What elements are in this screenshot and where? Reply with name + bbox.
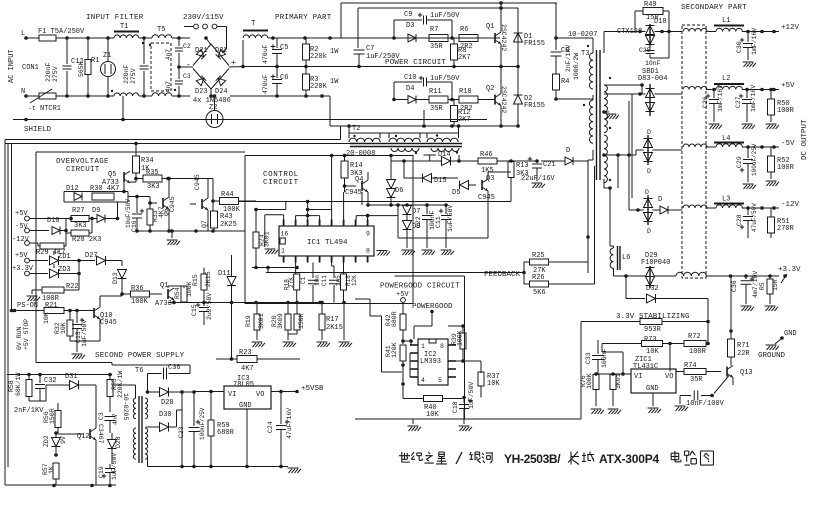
wire t6 top (7, 374, 112, 376)
svg-text:120K: 120K (391, 342, 398, 358)
bridge rectifier D24 (216, 76, 226, 86)
wire D9 up (117, 202, 119, 219)
wire ic3 out (271, 391, 297, 393)
svg-text:C36: C36 (731, 280, 738, 292)
capacitor C26 (713, 90, 715, 99)
svg-text:D: D (645, 189, 649, 196)
svg-text:953R: 953R (644, 326, 662, 334)
capacitor C6 (276, 67, 278, 79)
svg-text:A733: A733 (155, 300, 172, 308)
resistor R3 (305, 67, 307, 75)
svg-text:R30 4K7: R30 4K7 (90, 185, 119, 193)
wire ovp row (122, 293, 131, 295)
svg-text:1: 1 (421, 343, 425, 350)
wire N rail dots (65, 94, 69, 98)
svg-text:L: L (21, 30, 25, 38)
wire shield (13, 119, 487, 121)
svg-text:+5V: +5V (781, 82, 795, 90)
svg-text:Q3: Q3 (486, 175, 494, 183)
svg-text:R17: R17 (326, 316, 339, 324)
title char zhi (425, 452, 434, 463)
wire Q7 R44 (212, 179, 214, 212)
svg-text:D28: D28 (161, 399, 174, 407)
svg-text:D32: D32 (646, 285, 659, 293)
svg-text:D31: D31 (65, 373, 78, 381)
wire 12V row (667, 30, 671, 34)
svg-text:CONTROL: CONTROL (263, 171, 299, 179)
capacitor C12 (66, 38, 68, 64)
wire vi (596, 373, 631, 375)
svg-text:R5: R5 (759, 282, 766, 290)
wire pin5 vertical (331, 156, 333, 210)
resistor R51 (770, 208, 772, 217)
svg-text:100K: 100K (586, 373, 593, 389)
wire t3 sec bottom (603, 179, 605, 188)
wire ps-on (10, 309, 14, 313)
svg-text:D11: D11 (218, 270, 231, 278)
grounds ic1 (377, 250, 388, 252)
resistor R57 (53, 463, 59, 479)
wire top rail (268, 37, 500, 39)
svg-text:GROUND: GROUND (758, 352, 786, 360)
capacitor C15 (203, 303, 205, 307)
title char shi (399, 452, 410, 462)
svg-text:2u2/50V: 2u2/50V (206, 293, 213, 320)
ic1 top pins (283, 220, 285, 227)
svg-text:275V: 275V (130, 68, 137, 84)
svg-text:ZD3: ZD3 (58, 266, 71, 274)
resistor R19 (256, 303, 258, 315)
resistor R46 (478, 158, 497, 164)
diode D -12V (660, 206, 668, 214)
svg-text:D: D (647, 228, 651, 235)
transformer T6 primary (133, 398, 136, 419)
svg-text:2K7: 2K7 (458, 116, 471, 124)
svg-text:2K15: 2K15 (205, 271, 212, 287)
svg-text:SHIELD: SHIELD (24, 126, 52, 134)
resistor R43 (211, 211, 218, 228)
transformer T6 core (138, 396, 140, 463)
diode D5 (460, 181, 469, 190)
diode D2 (517, 67, 519, 96)
wire 3v3 row (706, 275, 779, 277)
svg-text:D14: D14 (438, 151, 451, 159)
resistor R2 (305, 38, 307, 44)
svg-text:C1: C1 (300, 276, 307, 284)
svg-text:PRIMARY PART: PRIMARY PART (275, 14, 332, 22)
ground C21 (532, 182, 543, 184)
svg-text:C9: C9 (404, 11, 412, 19)
svg-text:GND: GND (646, 385, 659, 393)
svg-text:4n7: 4n7 (165, 49, 172, 60)
bridge rectifier D22 (216, 49, 226, 59)
svg-text:1mF/16V: 1mF/16V (751, 28, 758, 55)
svg-text:D: D (647, 168, 651, 175)
svg-text:+5V: +5V (15, 252, 28, 260)
svg-text:C11: C11 (435, 216, 442, 228)
svg-text:N: N (21, 88, 25, 96)
svg-text:2K25: 2K25 (220, 221, 237, 229)
diode D28c (108, 440, 117, 449)
resistor R71 (729, 329, 733, 333)
svg-text:8: 8 (366, 248, 370, 255)
svg-text:2nF/1KV: 2nF/1KV (565, 45, 572, 72)
svg-text:Z1: Z1 (103, 52, 111, 60)
diode D8 (403, 221, 412, 230)
resistor R40 (403, 398, 423, 400)
diode D1 (517, 8, 519, 33)
transformer T2 primary coils (349, 138, 380, 142)
diode D13 (118, 270, 127, 279)
svg-text:AC INPUT: AC INPUT (8, 49, 16, 83)
resistor R21 (44, 308, 64, 314)
wire powergood left (355, 298, 370, 300)
wire q4 emitter (361, 192, 363, 205)
resistor R33 (147, 209, 153, 225)
svg-text:C945: C945 (478, 194, 495, 202)
svg-text:FR155: FR155 (524, 102, 545, 110)
resistor R12 (453, 100, 455, 107)
svg-text:C19: C19 (98, 466, 105, 478)
svg-text:1K: 1K (48, 466, 55, 474)
transformer T2 secondary coils (391, 148, 419, 152)
svg-text:R27: R27 (72, 207, 85, 215)
resistor R76 (593, 375, 599, 390)
ground C30 (743, 61, 754, 63)
capacitor C28 (747, 208, 749, 215)
wire bus left1 (4, 140, 6, 486)
svg-text:R25: R25 (532, 252, 545, 260)
resistor R32 (69, 311, 71, 321)
wire bridge to rails (206, 38, 211, 45)
svg-text:+3.3V: +3.3V (12, 265, 34, 273)
wire row302 (318, 301, 322, 305)
svg-text:ATX-300P4: ATX-300P4 (599, 452, 660, 466)
svg-text:+3.3V: +3.3V (778, 266, 801, 274)
svg-text:C33: C33 (585, 352, 592, 364)
wire bottom rail (230, 95, 330, 97)
coil 3v3 dashed (676, 272, 706, 276)
diode D14 (442, 157, 451, 166)
capacitor C21 (511, 160, 537, 162)
resistor R14 (343, 154, 347, 158)
capacitor C30 (747, 32, 749, 43)
svg-text:R11: R11 (429, 88, 442, 96)
resistor R16 (343, 263, 345, 275)
svg-text:1W: 1W (330, 78, 339, 86)
svg-text:C6: C6 (280, 74, 288, 82)
resistor R4 (553, 74, 560, 90)
bridge rectifier D21 (196, 49, 206, 59)
transformer T3 phase dots (587, 45, 589, 47)
wire bottom drop (329, 96, 331, 126)
transistor Q2 (494, 95, 496, 105)
wire t3 sec verticals (617, 155, 619, 188)
capacitor C16 (136, 197, 138, 214)
svg-text:R15: R15 (192, 274, 199, 286)
svg-text:R34: R34 (141, 157, 154, 165)
svg-text:470uF: 470uF (262, 74, 269, 94)
zener ZD3 (50, 269, 59, 278)
diode D11 (231, 255, 233, 277)
capacitor C2 (177, 36, 181, 40)
wire ic3 in (194, 391, 224, 393)
svg-text:F10P040: F10P040 (641, 259, 670, 267)
resistor R18 (295, 263, 297, 275)
svg-text:2SC4242: 2SC4242 (500, 86, 507, 113)
box power circuit top (341, 2, 557, 4)
resistor R44 (220, 198, 239, 205)
resistor R20 (287, 303, 289, 315)
svg-text:220k: 220k (310, 53, 327, 61)
resistor R22 (42, 287, 64, 293)
title char dian (671, 451, 681, 462)
ic2 pins right (448, 344, 456, 346)
wire ic1 row B (296, 215, 320, 217)
ic2 pins left (410, 344, 418, 346)
svg-text:4: 4 (421, 377, 425, 384)
svg-text:L6: L6 (622, 254, 630, 262)
svg-text:R23: R23 (239, 349, 252, 357)
capacitor C32 (39, 375, 41, 384)
svg-text:R7: R7 (430, 26, 438, 34)
resistor R63 953R (581, 321, 640, 323)
wire r72 node (669, 344, 671, 372)
transformer T6 secondary (145, 398, 148, 419)
wire row205 (368, 204, 446, 206)
svg-text:D12: D12 (66, 185, 79, 193)
capacitor C11b (445, 205, 447, 214)
diode D6 (390, 156, 392, 181)
wire bus top1 (5, 139, 341, 141)
svg-text:150R: 150R (49, 408, 56, 424)
svg-text:+12V: +12V (781, 24, 800, 32)
resistor R7 (429, 35, 448, 42)
wire ic2 left col (409, 353, 411, 377)
resistor R6 (459, 35, 478, 42)
transistor Q12 (89, 429, 91, 439)
svg-text:Q5: Q5 (108, 171, 116, 179)
svg-text:C29: C29 (736, 156, 743, 168)
resistor R34 (134, 142, 138, 146)
svg-text:R4: R4 (561, 78, 569, 86)
transistor Q11 (167, 289, 169, 299)
coil +5V dashed (683, 87, 707, 90)
resistor R24 (253, 232, 259, 248)
resistor R10 (459, 96, 478, 103)
svg-text:D10: D10 (47, 217, 60, 225)
resistor R11 (429, 96, 448, 103)
svg-text:3K09: 3K09 (277, 313, 284, 329)
svg-text:DC OUTPUT: DC OUTPUT (801, 119, 809, 160)
diode D7 (403, 206, 412, 215)
svg-text:12K: 12K (351, 275, 358, 286)
svg-text:R19: R19 (245, 315, 252, 327)
resistor R58 (26, 380, 32, 397)
capacitor C3 (177, 94, 181, 98)
resistor R8 (453, 38, 455, 44)
svg-text:22R: 22R (737, 350, 750, 358)
zener ZD2 (52, 438, 61, 447)
svg-text:1uF/50V: 1uF/50V (430, 12, 460, 20)
terminal +12V (772, 30, 776, 34)
box powergood (395, 275, 465, 277)
svg-text:3.3V STABILIZING: 3.3V STABILIZING (616, 313, 690, 321)
capacitor C22 (426, 205, 428, 214)
svg-text:T6: T6 (135, 367, 143, 375)
capacitor C13 (76, 311, 78, 324)
svg-text:C10: C10 (404, 74, 417, 82)
svg-text:L2: L2 (722, 75, 730, 83)
svg-text:10nF/100V: 10nF/100V (686, 400, 725, 408)
svg-text:100K: 100K (457, 330, 464, 346)
title char lu (685, 451, 697, 465)
resistor R56 (55, 411, 61, 428)
svg-text:1K5: 1K5 (481, 167, 494, 175)
title char cheng (582, 452, 594, 462)
svg-text:1mF/16V: 1mF/16V (717, 85, 724, 112)
title char tu (701, 451, 714, 465)
svg-text:68K/1W: 68K/1W (15, 372, 22, 396)
svg-text:C32: C32 (44, 377, 57, 385)
svg-text:D9: D9 (92, 207, 100, 215)
svg-text:D13: D13 (112, 272, 119, 284)
diode D12 (74, 193, 82, 201)
svg-text:Q1: Q1 (160, 282, 168, 290)
svg-text:1uF/50V: 1uF/50V (111, 453, 118, 480)
svg-text:R28 2K3: R28 2K3 (72, 236, 101, 244)
svg-text:5: 5 (438, 377, 442, 384)
title char ji (411, 452, 422, 460)
bridge rectifier D23 (196, 76, 206, 86)
svg-text:-t: -t (28, 105, 36, 112)
box second supply left edge (35, 152, 37, 363)
svg-text:100K: 100K (131, 298, 149, 306)
ground r16 col (343, 303, 345, 341)
svg-text:27K: 27K (288, 277, 295, 288)
wire L rail dots (65, 36, 69, 40)
terminal +5V (772, 88, 776, 92)
svg-text:FEEDBACK: FEEDBACK (484, 271, 521, 279)
svg-text:C21: C21 (543, 161, 556, 169)
svg-text:R58: R58 (8, 380, 15, 392)
capacitor C23 (193, 392, 195, 426)
svg-text:C945: C945 (194, 174, 201, 190)
svg-text:C15: C15 (191, 304, 198, 316)
svg-text:R43: R43 (220, 213, 233, 221)
svg-text:1W: 1W (330, 48, 339, 56)
svg-text:POWERGOOD CIRCUIT: POWERGOOD CIRCUIT (380, 283, 460, 291)
resistor R59 (210, 392, 212, 421)
transformer T2 core (350, 143, 462, 145)
ground zic1 (652, 393, 654, 406)
wire emitter row (137, 230, 245, 232)
svg-text:Q1: Q1 (486, 23, 494, 31)
svg-text:T2: T2 (352, 125, 360, 133)
transistor Q1 (494, 33, 496, 43)
resistor R55 (107, 380, 113, 397)
svg-text:+5V: +5V (15, 210, 28, 218)
svg-text:YH-2503B/: YH-2503B/ (504, 452, 561, 466)
svg-text:PS-ON: PS-ON (17, 302, 38, 310)
resistor R42 (400, 314, 406, 330)
svg-text:0V RUN: 0V RUN (16, 326, 23, 350)
svg-text:1: 1 (281, 248, 285, 255)
svg-text:220K/1W: 220K/1W (117, 371, 124, 398)
wire mid row (168, 302, 320, 304)
svg-text:10K: 10K (426, 411, 439, 419)
transformer T3 core (596, 50, 598, 180)
resistor R1 (87, 38, 89, 59)
coil +12V dashed (683, 29, 707, 32)
svg-text:TL431C: TL431C (633, 363, 658, 371)
svg-text:1uF/50V: 1uF/50V (430, 75, 460, 83)
resistor R36 (131, 291, 150, 297)
svg-text:100R: 100R (777, 107, 795, 115)
svg-text:VO: VO (256, 391, 264, 399)
svg-text:10K: 10K (487, 380, 500, 388)
title char he (482, 453, 493, 463)
wire ic1 row A (239, 201, 512, 203)
svg-text:-5V: -5V (15, 223, 28, 231)
svg-text:D: D (647, 129, 651, 136)
svg-text:D: D (566, 147, 570, 155)
svg-text:2K7: 2K7 (458, 54, 471, 62)
svg-text:680R: 680R (391, 311, 398, 327)
capacitor C29 (747, 147, 749, 158)
svg-text:3K01: 3K01 (258, 313, 265, 329)
svg-text:1mF/16V: 1mF/16V (750, 85, 757, 112)
svg-text:ZD1: ZD1 (58, 253, 71, 261)
resistor R21b (296, 303, 298, 315)
svg-text:T5: T5 (157, 26, 165, 34)
svg-text:C18: C18 (452, 401, 459, 413)
svg-text:9V: 9V (60, 436, 67, 444)
ground ic2 (412, 419, 414, 424)
wire bus third (11, 144, 13, 312)
wire bus left2 (7, 144, 9, 468)
capacitor C3b (105, 416, 116, 418)
svg-text:R21: R21 (45, 302, 58, 310)
svg-text:R54: R54 (174, 287, 181, 299)
svg-text:R46: R46 (480, 151, 493, 159)
svg-text:CIRCUIT: CIRCUIT (263, 179, 299, 187)
transistor Q6 (162, 198, 164, 208)
svg-text:78L05: 78L05 (233, 381, 254, 389)
capacitor C36b (745, 276, 747, 279)
svg-text:680R: 680R (217, 429, 235, 437)
svg-text:GND: GND (784, 330, 797, 338)
svg-text:2nF/1KV: 2nF/1KV (14, 407, 44, 415)
svg-text:1uF/50V: 1uF/50V (468, 382, 475, 409)
capacitor C11c (331, 263, 333, 267)
svg-text:35R: 35R (430, 105, 443, 113)
resistor R28 (66, 232, 71, 234)
svg-text:3K3: 3K3 (74, 222, 87, 230)
svg-text:2SC4242: 2SC4242 (500, 24, 507, 51)
wire q13 emitter (712, 395, 714, 397)
svg-text:R10: R10 (459, 88, 472, 96)
title char xing (436, 452, 447, 464)
svg-text:R35: R35 (146, 169, 159, 177)
svg-text:C945: C945 (345, 189, 362, 197)
capacitor C7 (354, 49, 365, 51)
resistor R5 (769, 276, 771, 279)
svg-text:10K: 10K (646, 348, 659, 356)
svg-text:R44: R44 (221, 191, 234, 199)
svg-text:C2: C2 (183, 43, 191, 50)
svg-text:D30: D30 (159, 411, 172, 419)
